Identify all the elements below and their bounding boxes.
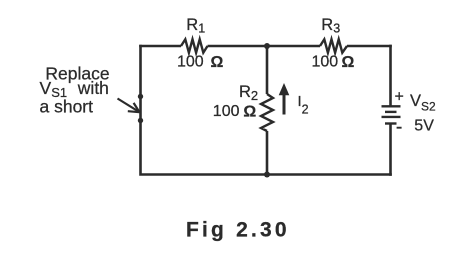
node top junction (264, 43, 270, 49)
svg-text:100: 100 (213, 103, 240, 120)
wire right lower (from battery -) (389, 124, 392, 176)
svg-text:R2: R2 (239, 83, 258, 103)
wire middle branch lower (266, 131, 269, 175)
svg-text:5V: 5V (414, 117, 434, 134)
wire top-middle segment (208, 45, 321, 48)
svg-text:Ω: Ω (342, 54, 355, 71)
svg-text:a short: a short (40, 97, 94, 117)
label minus (397, 127, 402, 129)
svg-text:Fig 2.30: Fig 2.30 (186, 218, 290, 241)
battery VS2 (382, 106, 401, 123)
svg-text:+: + (395, 89, 404, 106)
svg-text:R3: R3 (321, 16, 340, 36)
wire left branch and bottom (141, 45, 392, 175)
svg-text:Ω: Ω (211, 54, 224, 71)
resistor R3 (320, 39, 347, 52)
wire top-left segment (139, 45, 181, 48)
svg-text:Ω: Ω (243, 103, 256, 120)
current arrow I2 (279, 83, 290, 115)
svg-text:100: 100 (312, 54, 339, 71)
resistor R1 (181, 39, 208, 52)
svg-text:I2: I2 (298, 93, 309, 117)
resistor R2 (261, 94, 273, 131)
svg-text:VS2: VS2 (410, 92, 436, 114)
svg-text:R1: R1 (186, 16, 205, 36)
svg-text:100: 100 (177, 54, 204, 71)
annotation arrow (118, 99, 140, 113)
node VS1 upper terminal (138, 94, 143, 99)
wire middle branch upper (266, 46, 269, 94)
wire top-right segment (347, 45, 392, 48)
node VS1 lower terminal (138, 118, 143, 123)
node bottom junction (264, 172, 270, 178)
wire right upper (to battery +) (389, 45, 392, 107)
